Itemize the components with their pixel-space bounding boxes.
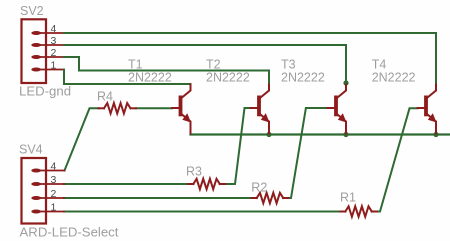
resistor R1 lead left — [340, 211, 345, 213]
svg-text:1: 1 — [51, 202, 57, 214]
svg-text:1: 1 — [51, 60, 57, 72]
connector SV4 body — [22, 158, 47, 224]
svg-text:SV4: SV4 — [19, 143, 43, 157]
connector SV2 body — [22, 19, 47, 83]
SV2 pin stub 3 — [40, 44, 64, 46]
SV4 pin stub 3 — [40, 183, 64, 185]
junction dot T3 emitter on rail — [343, 132, 348, 137]
SV2 pad pin 4 — [31, 31, 41, 35]
wire SV4.3 to R3 — [64, 183, 193, 185]
svg-text:3: 3 — [51, 174, 57, 186]
resistor R2 lead left — [252, 197, 257, 199]
resistor R4 lead left — [99, 107, 105, 109]
SV2 pad pin 1 — [31, 68, 41, 72]
wire R2 to T3 base — [283, 108, 327, 198]
wire net LEDGND4: SV2.4 to T4 collector — [64, 33, 436, 85]
junction dot T2 emitter on rail — [266, 132, 271, 137]
svg-text:LED-gnd: LED-gnd — [19, 84, 71, 99]
SV4 pin stub 1 — [40, 211, 64, 213]
wire R3 to T2 base — [220, 108, 251, 184]
SV4 pad pin 1 — [31, 210, 41, 214]
svg-text:3: 3 — [51, 35, 57, 47]
resistor R2 zigzag — [257, 193, 284, 203]
SV4 pad pin 2 — [31, 196, 41, 200]
resistor R2 lead right — [283, 197, 288, 199]
SV4 pad pin 4 — [31, 169, 41, 173]
svg-text:SV2: SV2 — [20, 4, 44, 18]
resistor R4 zigzag — [104, 103, 131, 113]
svg-text:2N2222: 2N2222 — [206, 70, 250, 84]
resistor R1 lead right — [372, 211, 377, 213]
transistor T3 — [328, 85, 347, 134]
wire net LEDGND2: SV2.2 to T2 collector — [64, 57, 269, 85]
wire net LEDGND3: SV2.3 to T3 collector — [64, 45, 346, 85]
wire SV4.4 diagonal to R4 — [65, 108, 99, 170]
SV4 pin stub 2 — [40, 197, 64, 199]
svg-text:R2: R2 — [251, 181, 267, 195]
transistor T2 — [251, 85, 270, 134]
svg-text:4: 4 — [51, 23, 57, 35]
resistor R1 zigzag — [345, 206, 372, 216]
SV2 pin stub 1 — [40, 69, 64, 71]
transistor T4 — [418, 85, 437, 134]
wire R1 to T4 base — [372, 108, 418, 211]
svg-text:2: 2 — [51, 47, 57, 59]
SV2 pad pin 2 — [31, 55, 41, 59]
wire SV4.1 to R1 — [64, 211, 345, 213]
SV4 pad pin 3 — [31, 182, 41, 186]
svg-text:2N2222: 2N2222 — [372, 70, 416, 84]
svg-text:2: 2 — [51, 188, 57, 200]
SV2 pad pin 3 — [31, 43, 41, 47]
SV2 pin stub 4 — [40, 32, 64, 34]
svg-text:R3: R3 — [186, 165, 202, 179]
resistor R3 lead right — [220, 183, 226, 185]
svg-text:ARD-LED-Select: ARD-LED-Select — [20, 225, 119, 240]
svg-text:2N2222: 2N2222 — [281, 70, 325, 84]
transistor T1 — [172, 85, 191, 134]
SV2 pin stub 2 — [40, 56, 64, 58]
svg-text:R1: R1 — [340, 191, 356, 205]
resistor R3 lead left — [188, 183, 193, 185]
junction dot T4 emitter on rail — [433, 132, 438, 137]
resistor R3 zigzag — [193, 179, 220, 189]
wire R4 to T1 base — [136, 107, 172, 109]
svg-text:R4: R4 — [97, 90, 113, 104]
svg-text:4: 4 — [51, 161, 57, 173]
SV4 pin stub 4 — [40, 170, 65, 172]
junction dot on T3 collector wire — [343, 80, 348, 85]
wire net LEDGND1: SV2.1 to T1 collector — [64, 70, 191, 85]
wire SV4.2 to R2 — [64, 197, 257, 199]
wire emitter ground rail — [191, 133, 450, 135]
svg-text:2N2222: 2N2222 — [128, 70, 172, 84]
resistor R4 lead right — [131, 107, 137, 109]
